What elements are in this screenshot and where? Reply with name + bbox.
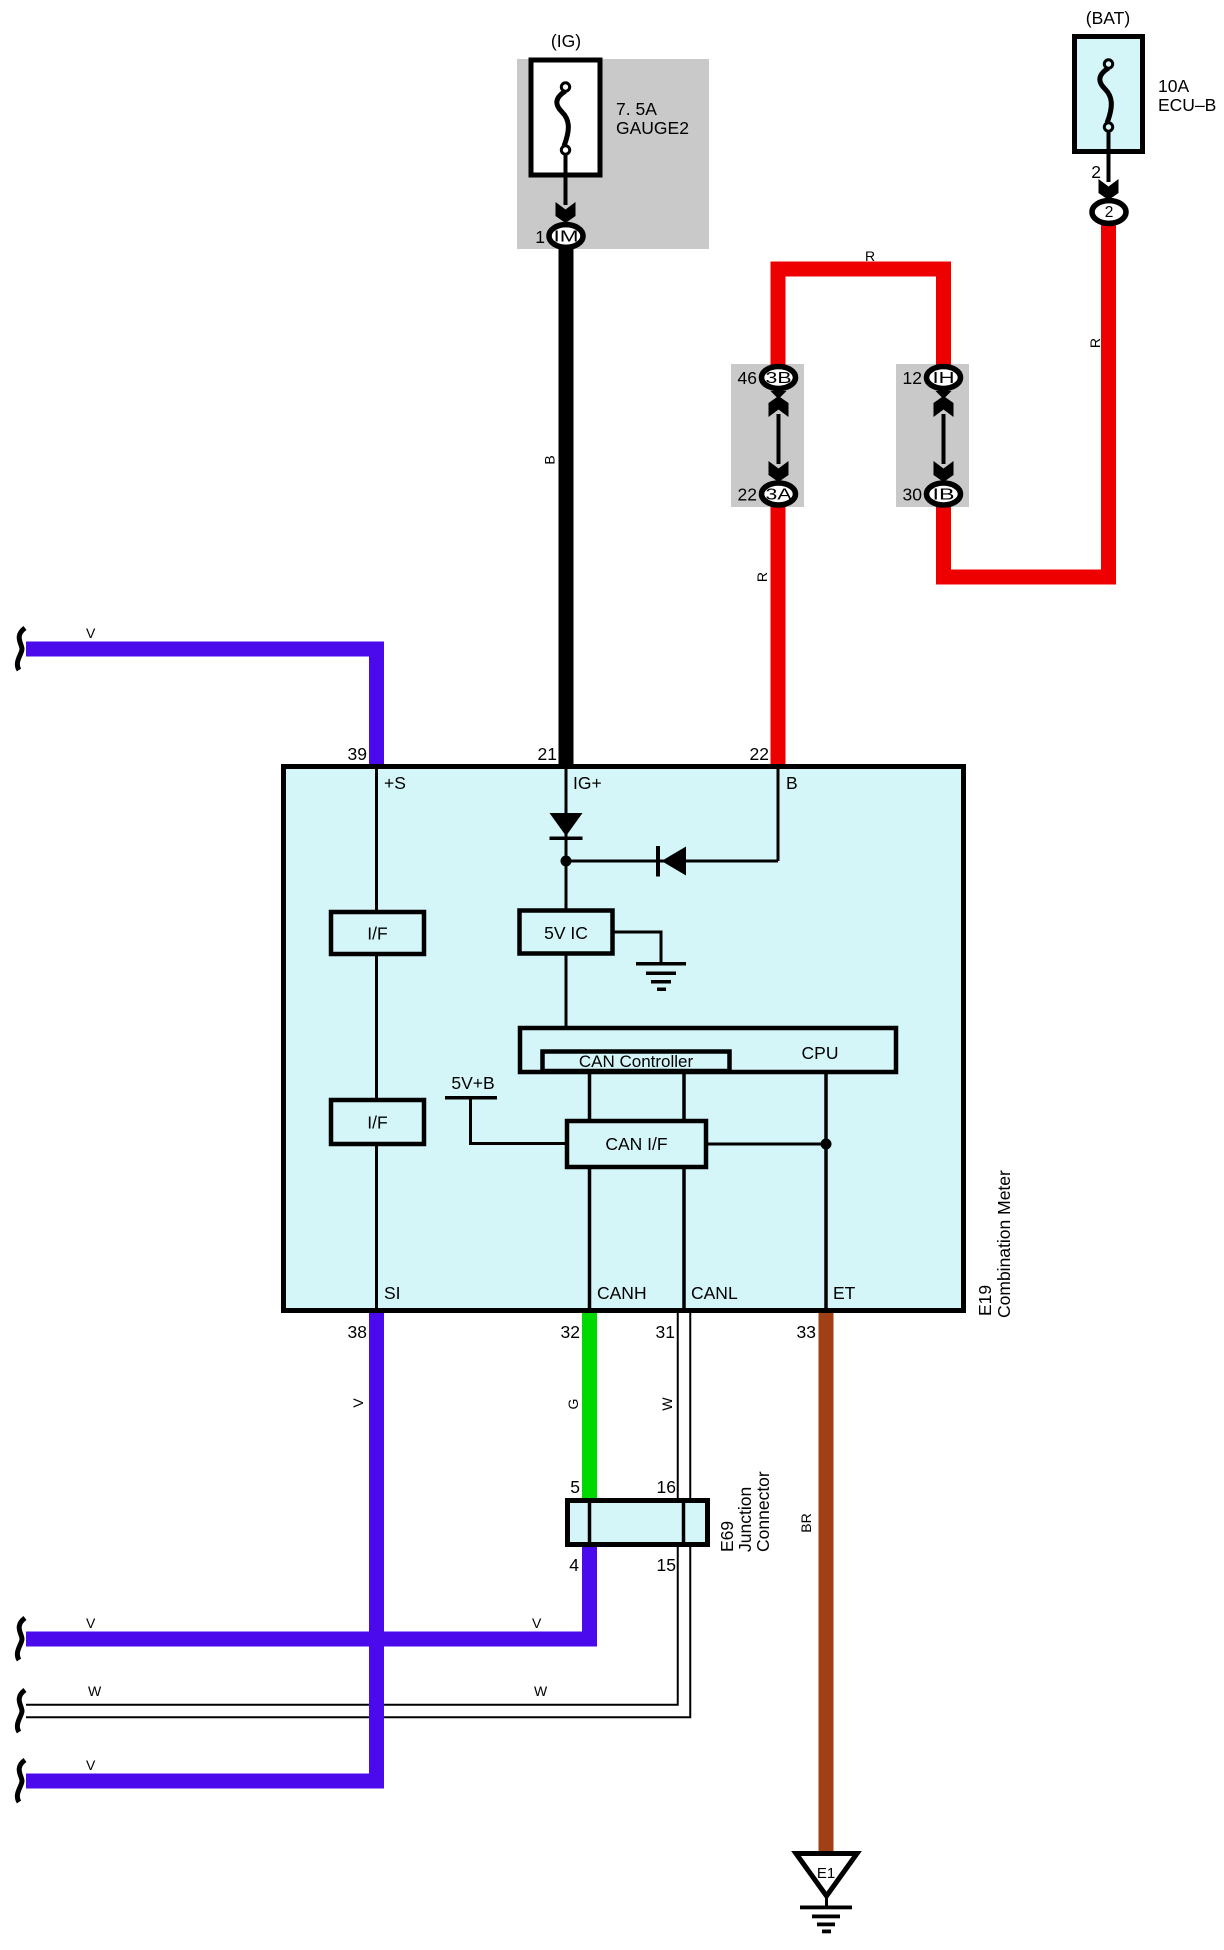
svg-text:SI: SI [384, 1283, 401, 1303]
wire V from E69 pin 4 down to left edge [26, 1545, 590, 1639]
svg-text:IG+: IG+ [573, 773, 602, 793]
arrow into connector 2 [1099, 179, 1119, 200]
CPU box [520, 1028, 896, 1072]
junction connector E69 box [568, 1500, 708, 1545]
svg-text:R: R [865, 248, 875, 264]
CAN I/F box [567, 1121, 706, 1167]
wire CAN Controller to CAN I/F left [588, 1071, 592, 1121]
svg-text:(BAT): (BAT) [1086, 8, 1130, 28]
wire BR from meter pin 33 to ground E1 [819, 1313, 834, 1853]
wire 5V IC to CPU [565, 954, 568, 1030]
svg-text:B: B [786, 773, 798, 793]
wire CAN Controller to CAN I/F right [682, 1071, 686, 1121]
svg-text:+S: +S [384, 773, 406, 793]
connector IB (pin 30) [903, 483, 961, 505]
fuse 7.5A GAUGE2 (IG) [531, 31, 689, 205]
svg-text:CAN I/F: CAN I/F [605, 1134, 667, 1154]
terminal IG+ line [565, 769, 568, 910]
svg-text:R: R [1087, 338, 1103, 348]
svg-text:IH: IH [933, 370, 955, 387]
svg-text:V: V [86, 1615, 96, 1631]
svg-text:I/F: I/F [367, 1113, 387, 1133]
terminal CANL line [682, 1167, 686, 1308]
wire R from 3A to meter pin 22 [771, 506, 786, 764]
svg-text:15: 15 [657, 1555, 676, 1575]
connector IH (pin 12) [903, 367, 961, 389]
svg-text:ET: ET [833, 1283, 856, 1303]
I/F box lower [331, 1100, 424, 1144]
connector 1 IM [535, 225, 583, 248]
node dot on ET line [821, 1139, 832, 1150]
svg-text:B: B [542, 455, 558, 464]
svg-text:IB: IB [933, 487, 955, 504]
arrow into connector IM [556, 202, 576, 223]
svg-text:E69: E69 [717, 1521, 737, 1552]
svg-text:2: 2 [1091, 162, 1101, 182]
svg-text:31: 31 [656, 1322, 675, 1342]
svg-text:22: 22 [750, 744, 769, 764]
wire G from meter pin 32 to E69 pin 5 [582, 1313, 597, 1500]
svg-text:5V IC: 5V IC [544, 923, 588, 943]
terminal CANH line [588, 1167, 592, 1308]
5V IC box [520, 911, 613, 954]
svg-text:W: W [88, 1683, 102, 1699]
svg-text:12: 12 [903, 368, 922, 388]
continuation squiggle V mid [17, 1618, 25, 1660]
svg-text:ECU–B: ECU–B [1158, 95, 1216, 115]
wire CAN I/F to ET line [706, 1143, 826, 1146]
svg-text:CANL: CANL [691, 1283, 738, 1303]
svg-text:IM: IM [554, 229, 579, 246]
terminal B line [777, 769, 780, 861]
svg-text:E19: E19 [975, 1285, 995, 1316]
wire R from fuse ECU-B down and to connector IB [944, 222, 1109, 577]
svg-text:30: 30 [903, 485, 923, 505]
combination meter E19 box [284, 767, 964, 1311]
wire R top loop from 3B to IH [778, 269, 944, 368]
wire B from fuse GAUGE2 to meter pin 21 [559, 246, 574, 765]
connector 3A (pin 22) [738, 483, 796, 505]
svg-text:5: 5 [570, 1477, 580, 1497]
node junction dot [561, 856, 572, 867]
svg-text:CANH: CANH [597, 1283, 647, 1303]
wire V meter pin 38 down to left edge [26, 1313, 377, 1781]
ground branch from 5V IC [613, 932, 686, 991]
diode D2 pointing left [656, 846, 686, 877]
connector 3B (pin 46) [738, 367, 796, 389]
svg-text:Combination Meter: Combination Meter [994, 1170, 1014, 1318]
fuse 10A ECU-B (BAT) [1075, 8, 1217, 182]
svg-text:39: 39 [348, 744, 367, 764]
svg-text:CAN Controller: CAN Controller [579, 1052, 694, 1071]
svg-text:33: 33 [797, 1322, 816, 1342]
diode D1 cathode down [550, 813, 583, 840]
arrow pair 3B to 3A [769, 391, 789, 487]
svg-text:7. 5A: 7. 5A [616, 99, 657, 119]
fuse GAUGE2 gray highlight [517, 59, 709, 249]
svg-text:V: V [86, 1757, 96, 1773]
continuation squiggle W [17, 1690, 25, 1732]
svg-text:W: W [534, 1683, 548, 1699]
svg-text:5V+B: 5V+B [451, 1073, 494, 1093]
svg-text:16: 16 [657, 1477, 676, 1497]
svg-text:W: W [659, 1397, 675, 1411]
svg-text:38: 38 [348, 1322, 367, 1342]
wire CPU to pin ET [824, 1072, 828, 1308]
svg-text:BR: BR [798, 1513, 814, 1532]
wire W (CANL) from meter pin 31 to junction connector E69 pin 16 [677, 1313, 692, 1500]
wire V from left edge to meter pin 39 [26, 649, 377, 764]
svg-text:Junction: Junction [735, 1487, 755, 1552]
I/F box upper [331, 912, 424, 954]
svg-text:1: 1 [535, 227, 545, 247]
svg-text:(IG): (IG) [551, 31, 581, 51]
svg-text:V: V [350, 1398, 366, 1408]
svg-text:21: 21 [538, 744, 557, 764]
svg-text:V: V [532, 1615, 542, 1631]
svg-text:CPU: CPU [802, 1043, 839, 1063]
svg-text:32: 32 [561, 1322, 580, 1342]
continuation squiggle V bottom [17, 1760, 25, 1802]
svg-text:22: 22 [738, 485, 757, 505]
svg-text:E1: E1 [817, 1865, 835, 1882]
connector pair IH/IB gray highlight [896, 364, 969, 507]
terminal SI line [375, 1144, 378, 1308]
svg-text:3A: 3A [766, 487, 793, 504]
svg-text:GAUGE2: GAUGE2 [616, 118, 689, 138]
svg-text:46: 46 [738, 368, 757, 388]
line between I/F boxes [375, 954, 378, 1102]
continuation squiggle V top [17, 628, 25, 670]
svg-text:V: V [86, 625, 96, 641]
CAN Controller box [543, 1052, 730, 1072]
5V+B supply [445, 1073, 567, 1144]
svg-text:I/F: I/F [367, 924, 387, 944]
svg-text:3B: 3B [766, 370, 792, 387]
connector pair 3B/3A gray highlight [731, 364, 804, 507]
terminal +S line [375, 769, 378, 912]
svg-text:R: R [754, 572, 770, 582]
svg-text:4: 4 [569, 1555, 579, 1575]
ground symbol E1 [796, 1854, 857, 1934]
svg-text:10A: 10A [1158, 76, 1189, 96]
connector 2 oval [1092, 201, 1126, 224]
arrow pair IH to IB [934, 391, 954, 487]
svg-text:G: G [565, 1399, 581, 1410]
wire W from E69 pin 15 down and left to edge [26, 1545, 684, 1711]
svg-text:Connector: Connector [753, 1471, 773, 1552]
svg-text:2: 2 [1105, 204, 1114, 221]
wire from node to terminal B line [566, 860, 778, 863]
